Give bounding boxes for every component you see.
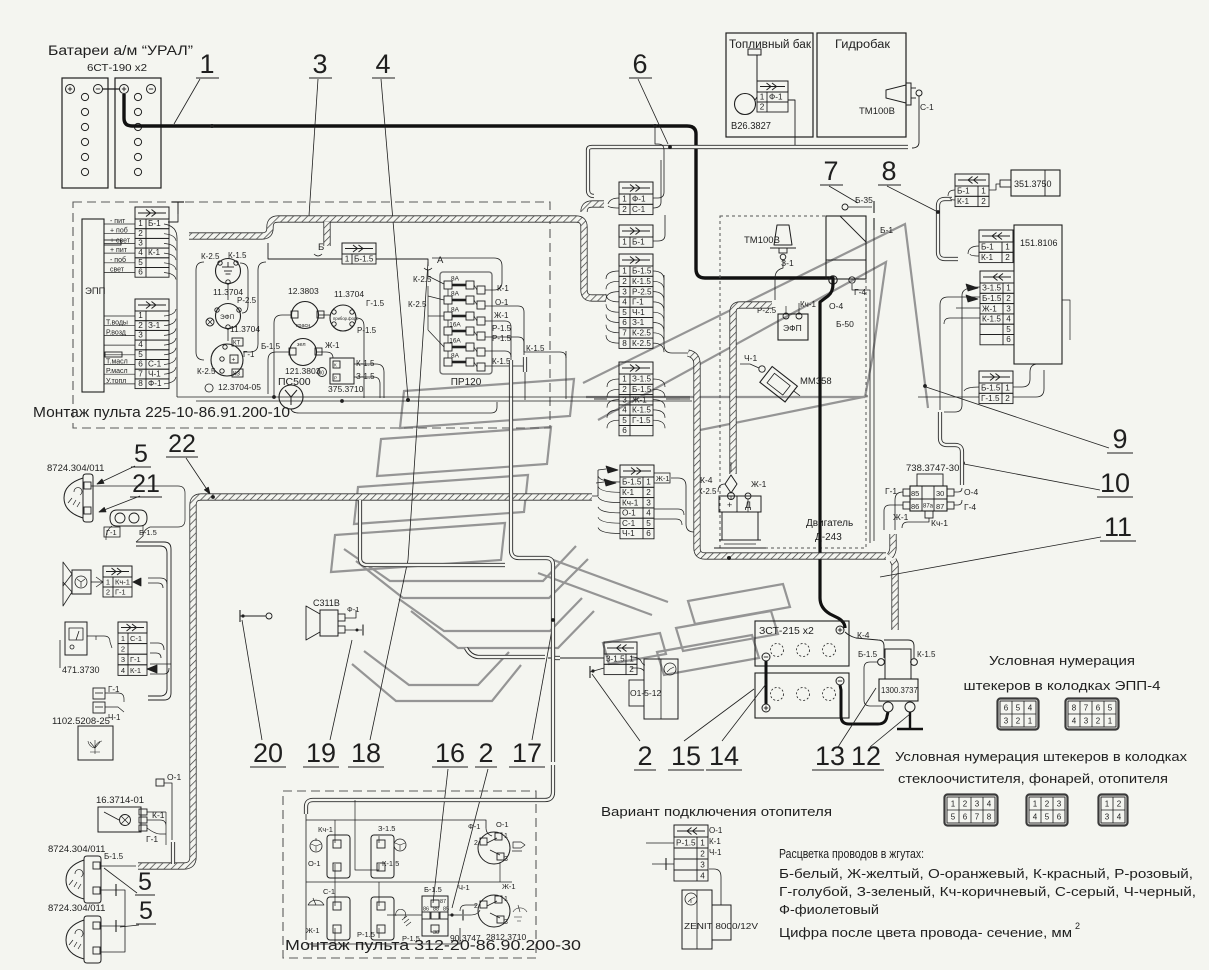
svg-text:Ж-1: Ж-1 [502,882,516,891]
svg-text:Монтаж пульта 225-10-86.91.200: Монтаж пульта 225-10-86.91.200-10 [33,404,290,421]
svg-text:К-2.5: К-2.5 [197,367,216,376]
svg-text:1: 1 [646,478,651,487]
svg-text:1102.5208-25: 1102.5208-25 [52,716,110,727]
svg-text:С311В: С311В [313,598,340,608]
battery link wire [102,88,120,90]
svg-text:1: 1 [622,238,627,247]
svg-text:6: 6 [1057,813,1062,822]
svg-text:4: 4 [138,248,143,257]
svg-text:375.3710: 375.3710 [328,384,364,394]
svg-text:90.3747: 90.3747 [450,933,481,943]
svg-text:Г-1: Г-1 [106,528,117,537]
svg-text:Кч-1: Кч-1 [800,300,816,309]
svg-text:471.3730: 471.3730 [62,665,100,675]
wires K1 left arcs [948,190,955,196]
svg-text:Ф-1: Ф-1 [632,195,646,204]
svg-text:красн: красн [296,323,310,329]
svg-text:4: 4 [646,509,651,518]
svg-text:2: 2 [963,800,968,809]
EPP lower row labels [106,320,128,385]
svg-text:Вариант подключения отопителя: Вариант подключения отопителя [601,804,832,819]
svg-text:2: 2 [1006,294,1011,303]
svg-text:86: 86 [423,907,429,913]
svg-text:12: 12 [851,741,881,771]
small box on row5 wire [105,352,122,357]
svg-text:8: 8 [881,156,896,186]
fan icon sw1 [310,840,322,852]
ground symbol above T1 [177,202,179,214]
svg-text:К-1.5: К-1.5 [492,357,511,366]
svg-text:5: 5 [1045,813,1050,822]
svg-text:Ж-1: Ж-1 [656,474,670,483]
svg-text:10: 10 [1100,468,1130,498]
svg-text:2: 2 [981,197,986,206]
connector fan [103,566,132,597]
junction on D1 [551,618,555,622]
svg-text:3: 3 [138,239,143,248]
svg-text:Г-1.5: Г-1.5 [366,299,385,308]
EPP upper row labels [110,218,131,274]
svg-text:1: 1 [700,838,705,847]
svg-text:3: 3 [700,860,705,869]
svg-text:2: 2 [138,229,143,238]
svg-text:Б-1: Б-1 [148,219,161,228]
svg-text:ЭПП: ЭПП [85,286,106,297]
svg-text:4: 4 [1006,315,1011,324]
svg-text:О-4: О-4 [964,487,978,497]
svg-text:К-1.5: К-1.5 [356,359,375,368]
svg-text:2: 2 [629,665,634,674]
svg-text:6: 6 [138,360,143,369]
svg-text:Ч-1: Ч-1 [148,369,161,378]
svg-text:1300.3737: 1300.3737 [881,686,918,695]
svg-text:Ч-1: Ч-1 [632,308,645,317]
gauge wires [87,636,112,648]
wiper icon plug2 [513,905,527,921]
arrow at harness corner (callout 22 target) [211,495,215,499]
wire T3 left to harness stub [268,243,342,259]
svg-text:3: 3 [1105,813,1110,822]
svg-text:Условная нумерация: Условная нумерация [989,654,1135,668]
svg-text:Б-1: Б-1 [981,243,994,252]
svg-text:4: 4 [622,406,627,415]
svg-text:16А: 16А [449,322,461,329]
relay 121.3803 [285,339,322,377]
svg-text:2: 2 [622,205,627,214]
svg-text:Топливный бак: Топливный бак [729,39,812,51]
fan motor left [63,562,91,606]
svg-text:5: 5 [139,897,153,925]
svg-text:ЭФП: ЭФП [220,314,235,321]
wires T8 left arcs [598,476,620,482]
wire TM100B down [775,260,783,300]
svg-text:Р-1.5: Р-1.5 [492,324,512,333]
svg-text:Р: Р [334,376,337,381]
svg-text:4: 4 [987,800,992,809]
temperature sensor TM100B (hydro) [859,83,934,117]
connector EPP upper [135,207,169,277]
svg-text:стеклоочистителя, фонарей, от: стеклоочистителя, фонарей, отопителя [898,772,1168,786]
svg-text:Г-1: Г-1 [130,655,141,664]
svg-text:Г-4: Г-4 [964,502,976,512]
washer pump 1102.5208-25 [52,685,121,760]
svg-text:7: 7 [1084,704,1089,713]
svg-text:К-2.5: К-2.5 [201,252,220,261]
pin diagram lamp 6-pin [1027,795,1068,826]
EPP block [82,219,106,392]
tbar near relay [448,914,462,916]
switch light [371,897,394,940]
connector right Б-1/К-1 (151) [979,230,1013,263]
svg-text:Г-1: Г-1 [115,587,126,596]
svg-text:151.8106: 151.8106 [1020,238,1058,248]
wires T6 right arcs to bus x664 [653,271,664,280]
svg-text:2: 2 [1117,800,1122,809]
svg-text:351.3750: 351.3750 [1014,179,1052,189]
svg-text:С-1: С-1 [148,360,162,369]
svg-text:87: 87 [440,899,446,905]
svg-text:К-1: К-1 [709,837,721,846]
svg-text:5: 5 [622,308,627,317]
horn icon plug1 [512,842,525,851]
svg-text:1: 1 [1105,800,1110,809]
connector 3-1.5 [604,642,637,675]
svg-text:1: 1 [981,187,986,196]
harness thin top y147 [588,147,908,154]
horn C311B [306,598,345,640]
svg-text:Р-2.5: Р-2.5 [237,296,257,305]
fork mark K3 [966,284,978,291]
pin diagram EPP 6-pin [998,699,1039,730]
svg-text:Ф-1: Ф-1 [468,822,480,831]
svg-text:3: 3 [646,498,651,507]
T8 annotation Ж-1 [654,473,670,483]
fuse block PR120 [440,272,492,388]
svg-text:7: 7 [622,329,627,338]
svg-text:ТМ100В: ТМ100В [859,106,895,117]
svg-text:О-1: О-1 [167,772,181,782]
harness C down from H4 [893,560,895,630]
svg-text:Б-35: Б-35 [855,195,873,205]
svg-text:20: 20 [253,738,283,768]
wires T8 right arcs to bus x686 [671,478,694,532]
svg-text:88: 88 [433,907,439,913]
svg-text:6: 6 [646,529,651,538]
connector EPP lower [135,299,169,389]
svg-text:2: 2 [700,849,705,858]
fan wires [91,581,103,583]
wires along y397-401 to harness D [680,398,690,400]
svg-text:С-1: С-1 [130,634,142,643]
B-35 terminal [842,204,848,210]
svg-text:3: 3 [312,49,327,79]
svg-text:3: 3 [504,919,508,926]
wires K4 right loops to 151 box [1013,364,1052,387]
wires bottom of pult box y397-401 [176,388,178,397]
wire T3 right to node A [376,259,428,266]
svg-text:1: 1 [345,254,350,263]
svg-text:2: 2 [474,840,478,847]
connector fuel 1:Ф-1 [757,81,788,112]
svg-text:Кч-1: Кч-1 [318,825,333,834]
thin harness D2 horizontal y565 [360,500,505,565]
svg-text:6: 6 [632,49,647,79]
svg-text:Г-1: Г-1 [146,834,158,844]
wires T7 left/right [607,379,619,387]
svg-text:85: 85 [911,489,919,498]
wire bus right of tables [164,224,177,388]
thin harness D1 long vertical [511,400,553,762]
svg-text:12.3704-05: 12.3704-05 [218,382,261,392]
svg-text:5: 5 [138,258,143,267]
lamp 16.3714-01 [96,795,147,832]
svg-text:5: 5 [951,813,956,822]
svg-text:З-1: З-1 [632,318,645,327]
svg-text:1: 1 [1033,800,1038,809]
wire K-4 to relay [845,632,884,658]
svg-text:С-1: С-1 [323,887,335,896]
svg-text:К-1: К-1 [622,488,634,497]
svg-text:6: 6 [1004,704,1009,713]
wires heater connector to ZENIT [709,869,721,905]
arrow marks left of T8 [606,466,618,473]
svg-text:2: 2 [1045,800,1050,809]
wires T6 left arcs to harness stub [606,271,619,279]
fuel level sender B26.3827 [735,94,756,115]
svg-text:К-1.5: К-1.5 [982,315,1001,324]
svg-text:4: 4 [121,666,125,675]
headlight 8724 bottom-1 [48,844,105,903]
harness D vertical x697 [688,353,886,556]
svg-text:2: 2 [106,587,110,596]
svg-text:ПР120: ПР120 [451,377,482,388]
svg-text:Р-2.5: Р-2.5 [632,287,652,296]
wires T4 left to harness stub [608,198,619,204]
svg-text:Ч-1: Ч-1 [709,848,722,857]
svg-text:1: 1 [504,896,508,903]
wire 151 box right stub [1062,300,1070,340]
harness H4 right corner up stub [890,534,893,556]
svg-text:17: 17 [512,738,542,768]
svg-text:6: 6 [138,268,143,277]
svg-text:З-1.5: З-1.5 [982,284,1002,293]
O-1 stub [156,779,164,786]
wires T4 right up [653,128,664,198]
svg-text:К-2.5: К-2.5 [632,339,651,348]
relay 11.3704 (dash lights) [330,289,364,331]
svg-text:Ч-1: Ч-1 [108,713,121,722]
wires starter top [731,462,748,512]
svg-text:87: 87 [936,502,944,511]
svg-text:6: 6 [622,426,627,435]
svg-text:З-1.5: З-1.5 [378,824,395,833]
svg-text:12.3803: 12.3803 [288,286,319,296]
relay 90.3747 [422,896,449,936]
svg-text:1: 1 [138,219,143,228]
svg-text:Г-1: Г-1 [632,298,644,307]
connector right 6-row [980,271,1014,345]
svg-text:8: 8 [987,813,992,822]
wires K3 left arcs [944,287,980,412]
svg-text:ПС500: ПС500 [278,376,311,388]
wire B-1.5 loop [864,662,882,706]
wires bottom box internals [335,820,379,843]
svg-text:З-1.5: З-1.5 [632,375,652,384]
relay 11.3704 (1) [213,259,243,298]
svg-text:18: 18 [351,738,381,768]
svg-text:7: 7 [138,369,143,378]
connector heater [674,825,708,881]
svg-text:00: 00 [319,371,325,377]
svg-text:Ж-1: Ж-1 [325,341,340,350]
svg-text:3: 3 [504,856,508,863]
svg-text:Ф-1: Ф-1 [347,605,359,614]
svg-text:3-1.5: 3-1.5 [606,655,625,664]
watermark logo [331,224,928,701]
switch wiper [327,897,350,940]
connector Б-1 mid [619,225,653,247]
svg-text:4: 4 [622,298,627,307]
bus x664 down to harness D-top [664,275,688,353]
TM100B sensor on engine [744,225,796,268]
svg-text:Ф-фиолетовый: Ф-фиолетовый [779,902,879,917]
svg-text:4: 4 [1033,813,1038,822]
switch tbar at 3-1.5 [589,666,591,678]
harness main top band [189,219,606,298]
svg-text:22: 22 [168,430,196,458]
harness thin to K1/K2 [938,206,958,259]
ZENIT heater [682,890,759,949]
svg-text:1: 1 [121,634,125,643]
svg-text:21: 21 [132,470,160,498]
svg-text:2: 2 [622,277,627,286]
svg-text:3: 3 [622,287,627,296]
svg-text:Б-1.5: Б-1.5 [982,294,1002,303]
svg-text:5: 5 [134,440,148,468]
svg-text:5: 5 [138,350,143,359]
svg-text:Расцветка проводов в жгутах:: Расцветка проводов в жгутах: [779,846,924,861]
pin diagram heater 4-pin [1099,795,1128,826]
wires bottom headlights [100,865,136,867]
svg-text:Б-1.5: Б-1.5 [858,650,878,659]
svg-text:6: 6 [1096,704,1101,713]
svg-text:8: 8 [1072,704,1077,713]
wires relay cluster [196,262,204,360]
svg-text:О-1: О-1 [496,820,509,829]
svg-text:1: 1 [760,92,765,101]
svg-text:Ф-1: Ф-1 [769,92,783,101]
svg-text:Цифра после цвета провода- сеч: Цифра после цвета провода- сечение, мм [779,925,1072,940]
svg-text:К-1: К-1 [130,666,141,675]
svg-text:87а: 87а [923,504,934,510]
switch heater fan [327,835,350,878]
svg-text:1: 1 [504,833,508,840]
svg-text:15: 15 [671,741,701,771]
svg-text:1: 1 [622,267,627,276]
svg-text:6: 6 [963,813,968,822]
harness thin to relay 738 [940,412,962,485]
harness thin drop to connector area [588,154,594,196]
svg-text:1: 1 [1006,284,1011,293]
svg-text:8724.304/011: 8724.304/011 [48,903,105,914]
pin diagram wiper 8-pin [945,795,998,826]
svg-text:Б-1.5: Б-1.5 [632,267,652,276]
fuel tank box [726,33,813,137]
svg-text:8А: 8А [451,307,460,314]
svg-text:К-2.5: К-2.5 [632,329,651,338]
svg-text:2: 2 [760,102,765,111]
svg-text:8724.304/011: 8724.304/011 [48,844,105,855]
wires 3-1.5 to resistor [631,657,645,665]
box 351.3750 [1011,170,1060,196]
wire sensor C-1 down to harness [912,96,919,148]
svg-text:Г-4: Г-4 [854,287,866,297]
svg-text:О-1: О-1 [622,509,636,518]
headlight 8724 bottom-2 [48,903,105,963]
svg-text:11.3704: 11.3704 [230,324,260,334]
svg-text:14: 14 [709,741,739,771]
svg-text:16: 16 [435,738,465,768]
wire G-4 hook [852,284,870,543]
svg-text:Р-1.5: Р-1.5 [492,334,512,343]
svg-text:К-1: К-1 [957,197,969,206]
svg-text:Б-1: Б-1 [957,187,970,196]
svg-text:2: 2 [121,645,125,654]
pin diagram EPP 8-pin [1066,699,1119,730]
svg-text:Г-1.5: Г-1.5 [632,416,651,425]
fan icon sw2 [394,839,406,851]
svg-text:8А: 8А [451,291,460,298]
svg-text:Р-1.5: Р-1.5 [676,838,696,847]
wires washer [105,693,124,702]
svg-text:2: 2 [622,385,627,394]
svg-text:ZENIT 8000/12V: ZENIT 8000/12V [684,922,759,931]
connector right Б-1/К-1 (351) [955,174,989,207]
svg-text:1: 1 [1005,243,1010,252]
svg-text:К-1.5: К-1.5 [228,251,247,260]
svg-text:2: 2 [1005,253,1010,262]
round connector plug-2 (Ч-1/Ж-1) 2812.3710 [474,895,510,927]
connector right Б-1.5/Г-1.5 [979,371,1013,404]
svg-text:К-1: К-1 [981,253,993,262]
thin harness stub below PR120 (x525) [523,357,527,372]
wire to 3-1.5 connector [548,657,604,659]
svg-text:Б-1.5: Б-1.5 [622,478,642,487]
svg-text:ЗСТ-215 х2: ЗСТ-215 х2 [759,625,814,637]
svg-text:1: 1 [622,195,627,204]
left harness spine [138,497,592,866]
svg-text:Б-1.5: Б-1.5 [424,885,442,894]
ground 1300 relay [909,712,911,729]
wires EPP to T2 rows [104,315,135,317]
svg-text:3: 3 [121,655,125,664]
svg-text:Ж-1: Ж-1 [751,479,767,489]
engine dotted box [720,216,866,548]
svg-text:К-2.5: К-2.5 [408,300,427,309]
connector Б-1.5 [342,243,376,264]
svg-text:8724.304/011: 8724.304/011 [47,463,104,474]
svg-text:+: + [727,500,732,510]
svg-text:1: 1 [106,577,110,586]
svg-text:11: 11 [1104,512,1132,542]
harness branch to F-1/S-1 connector [584,204,604,212]
dashed box pult 312-20 [283,791,536,958]
svg-text:2812.3710: 2812.3710 [486,932,526,942]
svg-text:1: 1 [1005,384,1010,393]
wire T1 B-1 to ground drop [168,214,178,222]
gauge 471.3730 [60,622,100,675]
svg-text:8: 8 [622,339,627,348]
